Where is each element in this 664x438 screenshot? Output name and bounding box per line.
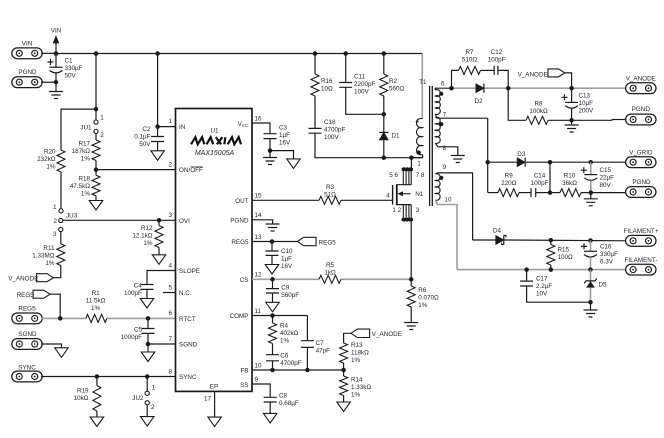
node D5 ground junction: [588, 300, 593, 305]
svg-text:C12: C12: [491, 49, 503, 56]
svg-text:220Ω: 220Ω: [501, 180, 517, 187]
svg-text:1µF: 1µF: [281, 256, 292, 263]
node R15 top junction: [549, 238, 554, 243]
svg-text:560pF: 560pF: [281, 292, 299, 299]
svg-text:REG5: REG5: [17, 292, 35, 299]
ground triangle at C10: [271, 255, 273, 264]
svg-text:6.3V: 6.3V: [600, 259, 614, 266]
svg-text:SYNC: SYNC: [18, 364, 36, 371]
diode D5 zener: [590, 270, 592, 281]
svg-text:REG5: REG5: [231, 239, 249, 246]
svg-text:1%: 1%: [143, 240, 153, 247]
ground earth at T1 pin8: [451, 156, 465, 163]
svg-text:D1: D1: [392, 133, 401, 140]
wire SS row: [252, 384, 270, 397]
svg-text:REG5: REG5: [18, 306, 36, 313]
svg-text:2200pF: 2200pF: [354, 81, 376, 88]
svg-text:D4: D4: [493, 227, 502, 234]
wire CS row gray: [252, 278, 319, 280]
wire C18 to drain rail: [315, 133, 423, 158]
capacitor C14 100pF: [519, 192, 531, 194]
svg-text:7 8: 7 8: [416, 172, 425, 179]
node R16 bus junction: [313, 51, 318, 56]
node R19 tap: [95, 374, 100, 379]
capacitor C3 1uF: [264, 134, 277, 139]
svg-text:R12: R12: [141, 225, 153, 232]
svg-text:16V: 16V: [281, 263, 293, 270]
resistor R9 220ohm: [488, 192, 498, 194]
svg-text:R10: R10: [564, 173, 576, 180]
svg-text:100Ω: 100Ω: [558, 254, 574, 261]
wire SGND terminal to ground: [41, 344, 62, 348]
transformer T1 secondary 9-10: [435, 174, 440, 201]
svg-text:1: 1: [53, 204, 57, 211]
svg-text:2: 2: [151, 404, 155, 411]
wire flag to V_ANODE net: [565, 73, 572, 88]
wire JU1 pin2 to R17: [95, 134, 97, 141]
wire C7 to FB: [306, 347, 308, 370]
node R15 bottom junction: [549, 267, 554, 272]
capacitor C5 1000pF: [147, 318, 149, 328]
svg-text:50V: 50V: [65, 73, 77, 80]
ground triangle at C8: [269, 402, 271, 413]
resistor R18 47.5k: [92, 175, 100, 196]
wire C11 to clamp node: [346, 87, 384, 114]
svg-text:FILAMENT+: FILAMENT+: [624, 228, 659, 235]
terminal VIN: [12, 48, 42, 59]
U1 MAXIM logo: [191, 137, 241, 144]
resistor R6 0.070ohm: [410, 279, 412, 286]
wire VIN top bus: [56, 53, 422, 55]
resistor R2 560ohm: [383, 54, 385, 75]
wire D3 node down: [549, 162, 551, 192]
resistor R16 10ohm: [314, 54, 316, 75]
svg-text:SGND: SGND: [179, 342, 198, 349]
wire RTCT row gray: [41, 317, 86, 319]
svg-text:510Ω: 510Ω: [462, 57, 478, 64]
svg-text:C9: C9: [281, 285, 290, 292]
svg-text:22µF: 22µF: [600, 175, 615, 182]
svg-text:V_ANODE: V_ANODE: [8, 275, 38, 282]
wire PGND terminal to C1: [41, 81, 56, 83]
svg-text:R2: R2: [389, 78, 398, 85]
svg-text:R18: R18: [78, 176, 90, 183]
svg-text:R9: R9: [505, 173, 514, 180]
svg-text:C1: C1: [65, 58, 74, 65]
node R10 left junction: [548, 190, 553, 195]
resistor R13 118k: [340, 343, 348, 363]
node C13 tap: [569, 86, 574, 91]
svg-text:R6: R6: [418, 287, 427, 294]
jumper JU3: [59, 209, 63, 213]
svg-text:1: 1: [417, 160, 421, 167]
capacitor C18 4700pF: [314, 96, 316, 128]
node C3 ground junction: [269, 139, 271, 151]
svg-text:1%: 1%: [351, 392, 361, 399]
svg-text:JU3: JU3: [66, 213, 78, 220]
svg-text:4700pF: 4700pF: [280, 360, 302, 367]
svg-text:11: 11: [255, 308, 262, 315]
svg-text:SGND: SGND: [18, 331, 37, 338]
svg-text:IN: IN: [179, 124, 186, 131]
svg-text:R3: R3: [326, 184, 335, 191]
svg-text:3: 3: [416, 207, 420, 214]
ground triangle at C4: [146, 289, 148, 298]
node drain rail junction: [409, 155, 414, 160]
wire T1 pin9 row: [435, 173, 472, 240]
node ON/OFF divider junction: [94, 167, 99, 172]
wire REG5 flag to RTCT row: [50, 294, 60, 318]
svg-text:FILAMENT-: FILAMENT-: [625, 257, 658, 264]
capacitor C10 1uF: [271, 242, 273, 252]
svg-text:16V: 16V: [279, 140, 291, 147]
diode D3: [517, 158, 525, 167]
node C17 tap: [524, 267, 529, 272]
svg-text:T1: T1: [419, 79, 427, 86]
svg-text:JU1: JU1: [80, 124, 92, 131]
node R4 tap on COMP: [270, 313, 275, 318]
svg-text:C17: C17: [536, 276, 548, 283]
wire COMP row: [252, 315, 307, 317]
svg-text:1 2: 1 2: [392, 207, 401, 214]
node VIN bus junction at arrow: [54, 51, 59, 56]
svg-text:D2: D2: [475, 98, 484, 105]
resistor R10 36k: [550, 192, 560, 194]
svg-text:10Ω: 10Ω: [321, 86, 333, 93]
svg-text:10µF: 10µF: [579, 100, 594, 107]
svg-text:PGND: PGND: [632, 179, 651, 186]
svg-text:C11: C11: [354, 74, 366, 81]
wire T1 pin1 to drain: [411, 155, 422, 158]
svg-text:47pF: 47pF: [316, 348, 331, 355]
net flag REG5 mid: [297, 237, 316, 245]
capacitor C9 560pF: [272, 279, 274, 288]
node bus to JU1 branch: [94, 51, 99, 56]
node D3 branch junction: [485, 160, 490, 165]
resistor R12 12.1k: [158, 220, 160, 225]
svg-text:C6: C6: [280, 353, 289, 360]
svg-text:4: 4: [168, 262, 172, 269]
capacitor C2 0.1uF: [151, 137, 164, 142]
svg-text:1.33MΩ: 1.33MΩ: [32, 253, 55, 260]
resistor R17 187k: [92, 140, 100, 161]
wire SYNC row: [41, 376, 176, 378]
svg-text:SYNC: SYNC: [179, 374, 197, 381]
jumper JU2: [146, 377, 148, 392]
resistor R3 51ohm: [319, 196, 341, 204]
wire bus to IN pin: [157, 54, 159, 137]
ground triangle at C2: [157, 142, 159, 151]
ground triangle at C9: [272, 293, 274, 302]
terminal V_GRID: [626, 157, 656, 168]
svg-text:V_GRID: V_GRID: [629, 150, 653, 157]
svg-text:8: 8: [168, 368, 172, 375]
wire R2 to clamp node: [383, 96, 385, 132]
svg-text:REG5: REG5: [319, 239, 337, 246]
svg-text:PGND: PGND: [18, 69, 37, 76]
node FB junctions: [270, 368, 275, 373]
svg-text:SLOPE: SLOPE: [179, 268, 200, 275]
wire N.C. stub pin 5: [163, 292, 176, 294]
svg-text:1%: 1%: [45, 260, 55, 267]
svg-text:JU2: JU2: [132, 395, 144, 402]
svg-text:SS: SS: [240, 382, 248, 389]
svg-text:16: 16: [255, 115, 263, 122]
svg-text:0.070Ω: 0.070Ω: [418, 295, 439, 302]
svg-text:10: 10: [255, 362, 263, 369]
svg-text:C15: C15: [600, 167, 612, 174]
wire R20 branch: [61, 109, 96, 150]
svg-text:ON/OFF: ON/OFF: [179, 167, 203, 174]
wire C13 to PGND rail: [571, 108, 573, 120]
svg-text:V_ANODE: V_ANODE: [518, 71, 548, 78]
wire R17 to R18: [95, 161, 97, 176]
jumper JU1: [94, 120, 98, 124]
wire SLOPE row: [147, 271, 176, 285]
svg-text:50V: 50V: [139, 141, 151, 148]
svg-text:0.1µF: 0.1µF: [134, 134, 150, 141]
svg-text:10: 10: [445, 197, 453, 204]
ground triangle right of C3: [270, 151, 294, 159]
resistor R5 1k: [319, 275, 341, 283]
terminal SGND: [12, 339, 42, 350]
svg-text:R8: R8: [534, 101, 543, 108]
wire OUT row left: [252, 199, 319, 201]
wire bus down to JU1: [95, 54, 97, 121]
node R2 bus junction: [382, 51, 387, 56]
capacitor C1: [48, 59, 54, 65]
ground earth at PGND pin: [252, 220, 273, 224]
svg-text:13: 13: [255, 234, 263, 241]
wire R3 to gate: [341, 199, 393, 201]
svg-text:232kΩ: 232kΩ: [37, 156, 56, 163]
node R7 branch left: [449, 86, 454, 91]
svg-text:N1: N1: [415, 191, 424, 198]
svg-text:R20: R20: [44, 149, 56, 156]
node D2 output junction: [506, 86, 511, 91]
svg-text:R17: R17: [78, 141, 90, 148]
svg-text:1%: 1%: [46, 164, 56, 171]
net flag REG5 left: [33, 290, 50, 298]
wire T1 pin7 row: [435, 114, 487, 118]
wire pin7 to D3 junction: [487, 118, 489, 192]
svg-text:R14: R14: [351, 377, 363, 384]
svg-text:V_ANODE: V_ANODE: [626, 76, 656, 83]
svg-text:R19: R19: [77, 388, 89, 395]
svg-text:200V: 200V: [579, 108, 595, 115]
svg-text:6: 6: [441, 81, 445, 88]
capacitor C15 22uF: [590, 162, 592, 174]
svg-text:R4: R4: [280, 323, 289, 330]
ground earth at C13: [571, 120, 573, 125]
svg-text:2.2µF: 2.2µF: [536, 283, 552, 290]
transformer T1 secondary 7-8: [435, 117, 440, 143]
svg-text:12.1kΩ: 12.1kΩ: [132, 233, 152, 240]
node CS source junction: [409, 277, 414, 282]
node C2 bus junction: [155, 51, 160, 56]
svg-text:10V: 10V: [536, 291, 548, 298]
diode D1: [379, 132, 388, 140]
svg-text:PGND: PGND: [230, 217, 249, 224]
svg-text:RTCT: RTCT: [179, 316, 196, 323]
svg-text:47.5kΩ: 47.5kΩ: [70, 183, 90, 190]
svg-text:VIN: VIN: [22, 41, 33, 48]
svg-text:OUT: OUT: [235, 198, 248, 205]
ground triangle at SGND pin: [147, 344, 149, 352]
svg-text:118kΩ: 118kΩ: [351, 350, 369, 357]
node C10 tap: [270, 239, 275, 244]
svg-text:100pF: 100pF: [531, 180, 549, 187]
capacitor C8 0.68uF: [264, 397, 277, 402]
terminal PGND output2: [591, 192, 627, 194]
power flag VIN arrow: [55, 43, 57, 54]
svg-text:1: 1: [168, 118, 172, 125]
svg-text:100kΩ: 100kΩ: [529, 108, 548, 115]
svg-text:2: 2: [100, 132, 104, 139]
wire V_GRID row: [488, 161, 518, 163]
wire C6 to FB: [272, 361, 274, 370]
svg-text:C18: C18: [324, 119, 336, 126]
svg-text:1µF: 1µF: [279, 132, 290, 139]
node D1 rail junction: [382, 155, 387, 160]
ground triangle at JU2: [146, 405, 148, 417]
node C13 ground junction: [569, 118, 574, 123]
capacitor C12 100pF: [481, 69, 495, 71]
svg-text:N.C.: N.C.: [179, 290, 192, 297]
svg-text:560Ω: 560Ω: [389, 86, 405, 93]
svg-text:C8: C8: [279, 393, 288, 400]
node T1 primary phase dot: [416, 150, 420, 154]
svg-text:12: 12: [255, 272, 263, 279]
transformer T1 primary winding: [421, 54, 423, 119]
svg-text:187kΩ: 187kΩ: [72, 148, 91, 155]
svg-text:COMP: COMP: [230, 313, 249, 320]
svg-text:80V: 80V: [600, 182, 612, 189]
transistor N1 MOSFET: [392, 185, 394, 205]
svg-text:6: 6: [168, 310, 172, 317]
svg-text:R7: R7: [465, 49, 474, 56]
resistor R1 11.5k: [86, 314, 107, 322]
node C1/PGND junction: [54, 80, 59, 85]
svg-text:4700pF: 4700pF: [324, 127, 346, 134]
svg-text:2: 2: [168, 161, 172, 168]
ground earth at R6: [410, 307, 412, 323]
svg-text:5 6: 5 6: [389, 172, 398, 179]
diode D2: [476, 84, 484, 93]
wire T1 pin10 gray: [435, 200, 457, 270]
transformer T1 core: [430, 86, 433, 206]
node C15 ground junction: [589, 190, 594, 195]
svg-text:51Ω: 51Ω: [324, 191, 336, 198]
ground triangle at R14: [343, 396, 345, 403]
svg-text:EP: EP: [210, 384, 218, 391]
node clamp junction: [382, 112, 387, 117]
U1 EP pin 17 ground: [214, 391, 216, 417]
svg-text:OVI: OVI: [179, 218, 190, 225]
svg-text:3: 3: [168, 212, 172, 219]
svg-text:2: 2: [53, 218, 57, 225]
node R20 tap: [94, 107, 99, 112]
wire OVI row from JU3 pin2: [63, 219, 176, 221]
svg-text:100pF: 100pF: [124, 290, 142, 297]
ground earth at C3: [269, 151, 271, 158]
svg-text:1.33kΩ: 1.33kΩ: [351, 384, 371, 391]
svg-text:11.5kΩ: 11.5kΩ: [86, 298, 106, 305]
resistor R20 232k: [57, 150, 65, 172]
resistor R8 100k: [508, 88, 526, 120]
svg-text:FB: FB: [240, 368, 248, 375]
ground triangle at R12: [158, 248, 160, 255]
svg-text:1: 1: [100, 115, 104, 122]
svg-text:100V: 100V: [324, 134, 340, 141]
svg-text:1%: 1%: [81, 156, 91, 163]
svg-text:1000pF: 1000pF: [121, 334, 143, 341]
svg-text:9: 9: [255, 377, 259, 384]
capacitor C16 330uF: [590, 241, 592, 252]
terminal FILAMENT-: [626, 264, 656, 275]
capacitor C7 47pF: [306, 316, 308, 341]
svg-text:U1: U1: [210, 128, 219, 135]
svg-text:36kΩ: 36kΩ: [562, 180, 577, 187]
svg-text:C10: C10: [281, 248, 293, 255]
svg-text:1%: 1%: [280, 338, 290, 345]
svg-text:C14: C14: [534, 173, 546, 180]
transistor N1 source pin bundle: [403, 205, 411, 219]
svg-text:C7: C7: [316, 340, 325, 347]
wire FILAMENT+ row: [473, 239, 496, 241]
wire V_ANODE row gray: [452, 87, 626, 89]
terminal PGND input: [12, 77, 42, 88]
svg-text:MAX15005A: MAX15005A: [195, 150, 235, 157]
node JU2 tap: [145, 374, 150, 379]
svg-text:15: 15: [255, 193, 263, 200]
svg-text:R5: R5: [326, 262, 335, 269]
wire flag to R13: [344, 333, 351, 343]
diode D4: [496, 236, 504, 245]
ground earth at C15: [590, 193, 592, 199]
wire VIN terminal to bus: [41, 52, 56, 54]
svg-text:402kΩ: 402kΩ: [280, 330, 299, 337]
svg-text:1kΩ: 1kΩ: [324, 269, 336, 276]
resistor R19 10k: [96, 377, 98, 386]
wire FILAMENT- row gray: [457, 269, 627, 271]
svg-text:VIN: VIN: [51, 28, 62, 35]
node C16 top junction: [588, 238, 593, 243]
ground triangle at R19: [96, 411, 98, 417]
svg-text:D3: D3: [517, 151, 526, 158]
svg-text:R15: R15: [558, 247, 570, 254]
svg-text:1%: 1%: [81, 191, 91, 198]
svg-text:10kΩ: 10kΩ: [74, 395, 89, 402]
svg-text:330µF: 330µF: [600, 251, 618, 258]
capacitor C11 2200pF: [345, 54, 347, 83]
wire C5 to SGND pin: [148, 333, 176, 344]
svg-text:0.68µF: 0.68µF: [279, 400, 299, 407]
resistor R15 100ohm: [550, 240, 552, 244]
capacitor C13 10uF: [571, 88, 573, 102]
svg-text:C2: C2: [142, 126, 151, 133]
svg-text:100pF: 100pF: [488, 57, 506, 64]
svg-text:330µF: 330µF: [65, 65, 83, 72]
wire T1 pin6: [435, 88, 451, 90]
svg-text:D5: D5: [599, 282, 608, 289]
svg-text:C5: C5: [134, 327, 143, 334]
transistor N1 drain pin bundle: [410, 158, 412, 170]
svg-text:1: 1: [152, 385, 156, 392]
ground earth at C1: [55, 82, 57, 91]
node SGND junction: [146, 342, 151, 347]
svg-text:PGND: PGND: [632, 106, 651, 113]
